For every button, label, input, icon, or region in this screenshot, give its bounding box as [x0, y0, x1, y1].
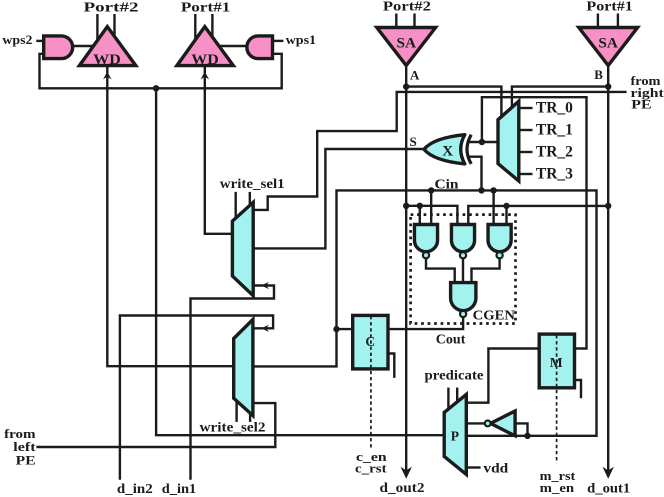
wire TR_1 stub [519, 129, 533, 131]
wire SA1 bitline left [597, 14, 599, 30]
junction Cin gate3 [490, 187, 496, 193]
svg-text:A: A [410, 67, 420, 82]
junction A-net gate1 [417, 203, 423, 209]
wire S from XOR to write_sel1 input [253, 149, 424, 248]
svg-text:CGEN: CGEN [473, 308, 515, 323]
register C [353, 315, 388, 369]
junction Cin XOR [478, 187, 484, 193]
wire vdd stub to P [466, 466, 480, 468]
arrow into WD2 [103, 72, 112, 80]
wire Cin stub to gate3 [492, 190, 494, 224]
wire TR_3 stub [519, 173, 533, 175]
junction Cin gate1 [428, 187, 434, 193]
wire from left PE to write_sel2 input [36, 403, 275, 447]
wire TR_2 stub [519, 151, 533, 153]
sense amp SA2 (Port#2) [377, 28, 436, 66]
svg-text:Port#1: Port#1 [181, 0, 231, 15]
wire from right PE to write_sel1 input [253, 92, 626, 210]
svg-text:PE: PE [631, 98, 651, 112]
wire node A vertical to d_out2 [405, 66, 407, 477]
junction node A [403, 83, 409, 89]
XOR gate X input arc [467, 135, 471, 164]
NAND gate CGEN-2 [451, 225, 474, 252]
write driver WD1 (Port#1) [177, 27, 233, 66]
arrow into WD1 [201, 72, 210, 80]
bubble CGEN-3 output [497, 252, 503, 258]
wire write_sel1 select stubs [234, 192, 236, 219]
svg-text:c_rst: c_rst [355, 462, 387, 476]
arrow into write_sel1 feedback [261, 282, 269, 289]
svg-text:TR_3: TR_3 [536, 165, 573, 182]
wire WD1 bitline right [211, 14, 213, 42]
wire TR mux output branch to M register [482, 97, 587, 348]
write driver WD2 (Port#2) [79, 27, 135, 66]
arrow d_out2 [401, 467, 412, 479]
arrow d_out1 [603, 467, 614, 479]
svg-text:write_sel2: write_sel2 [200, 420, 266, 435]
svg-text:S: S [410, 134, 417, 149]
mux write_sel1 [232, 202, 253, 295]
wire d_in2 to write_sel2 feedback input [120, 316, 273, 480]
svg-text:P: P [451, 429, 459, 444]
wire AND wps1 output to WD1 [218, 45, 248, 47]
wire A-net stub to gate1 [419, 206, 421, 225]
junction node loop/P [153, 85, 159, 91]
inverter [491, 411, 516, 436]
wire wps1 input stub [273, 40, 284, 42]
svg-text:M: M [550, 355, 563, 370]
svg-text:vdd: vdd [483, 461, 508, 476]
svg-text:WD: WD [93, 52, 121, 68]
wire P select stubs (predicate) [447, 388, 449, 411]
svg-text:SA: SA [598, 36, 618, 52]
svg-text:m_en: m_en [540, 481, 575, 495]
wire inverter input hook [515, 423, 527, 435]
CGEN dotted box [411, 215, 516, 324]
svg-text:X: X [442, 143, 453, 159]
svg-text:Port#2: Port#2 [84, 0, 139, 15]
wire WD2 bitline right [113, 14, 115, 42]
wire SA2 bitline left [395, 14, 397, 30]
wire gate2 output to NAND [462, 258, 464, 284]
wire B-net stub to gate3 [505, 206, 507, 225]
wire write_sel2 output to WD2 input [107, 66, 233, 366]
svg-text:Cin: Cin [435, 177, 460, 192]
mux write_sel2 [234, 320, 253, 416]
junction C input [333, 326, 339, 332]
wire C register clock hook [388, 354, 394, 378]
C register dashed control line [370, 316, 372, 448]
wire write_sel1 output to WD1 input [205, 66, 233, 234]
wire write_sel2 select stubs [235, 400, 237, 422]
wire P output riser to wps gates [156, 88, 444, 435]
svg-text:PE: PE [16, 453, 36, 467]
svg-text:Port#2: Port#2 [383, 0, 431, 15]
XOR gate X body [424, 135, 465, 164]
wire Cin branch to C register input [337, 328, 353, 330]
wire M output to P input [466, 349, 539, 403]
wire A to TR mux select [406, 87, 501, 117]
wire XOR lower input from Cin [469, 157, 482, 191]
svg-text:C: C [365, 334, 375, 349]
wire CGEN output Cout to C register [388, 317, 463, 329]
wire node B vertical to d_out1 [607, 66, 609, 477]
register M [539, 334, 574, 388]
junction TR mux output [479, 139, 485, 145]
wire gate1 output to NAND [426, 258, 455, 284]
svg-text:d_in1: d_in1 [162, 481, 197, 496]
wire wps loop (P output to AND gates) [40, 54, 282, 89]
wire AND wps2 output to WD2 [73, 45, 95, 47]
arrow into write_sel2 feedback [261, 325, 269, 332]
wire Cin net [253, 190, 597, 435]
bubble CGEN output stage [460, 311, 466, 317]
svg-text:wps2: wps2 [2, 32, 32, 47]
svg-text:WD: WD [191, 52, 219, 68]
wire inverter output to P [466, 422, 485, 424]
wire TR mux output to XOR input [469, 141, 499, 143]
wire SA2 bitline right [413, 14, 415, 30]
wire SA1 bitline right [617, 14, 619, 30]
junction node B [605, 83, 611, 89]
wire TR_0 stub [519, 107, 533, 109]
bubble CGEN-1 output [423, 252, 429, 258]
NAND gate CGEN output stage [451, 283, 476, 311]
AND gate wps2 [44, 36, 73, 59]
sense amp SA1 (Port#1) [579, 28, 638, 66]
svg-text:TR_0: TR_0 [536, 99, 573, 116]
svg-text:B: B [594, 67, 603, 82]
wire B to TR mux select [512, 87, 608, 108]
svg-text:Cout: Cout [436, 331, 466, 346]
svg-text:SA: SA [397, 36, 417, 52]
mux P (predicate) [444, 394, 466, 474]
junction B-net gate3 [503, 203, 509, 209]
svg-text:d_out2: d_out2 [380, 480, 425, 495]
svg-text:left: left [13, 440, 36, 454]
bubble inverter output [485, 421, 491, 427]
M register dashed control line [556, 335, 558, 463]
mux TR (4:1) [498, 101, 519, 181]
svg-text:TR_2: TR_2 [536, 143, 573, 160]
wire gate3 output to NAND [472, 258, 500, 284]
AND gate wps1 [247, 36, 273, 59]
NAND gate CGEN-1 [414, 225, 437, 252]
bubble CGEN-2 output [460, 252, 466, 258]
svg-text:d_in2: d_in2 [117, 481, 153, 496]
wire B-net to CGEN gates [468, 206, 608, 225]
junction B-net B [605, 203, 611, 209]
wire d_in1 to write_sel1 feedback input [191, 286, 275, 480]
svg-text:from: from [4, 427, 36, 441]
svg-text:d_out1: d_out1 [587, 481, 630, 496]
NAND gate CGEN-3 [488, 225, 511, 252]
svg-text:predicate: predicate [425, 368, 484, 383]
junction A-net [403, 203, 409, 209]
wire M register clock hook [575, 380, 582, 398]
svg-text:write_sel1: write_sel1 [220, 176, 285, 191]
wire WD1 bitline left [194, 14, 196, 44]
svg-text:wps1: wps1 [286, 32, 317, 47]
wire wps2 input stub [36, 40, 44, 42]
wire Cin stub to gate1 [430, 190, 432, 224]
svg-text:Port#1: Port#1 [586, 0, 632, 15]
wire A-net to CGEN gates [406, 206, 457, 225]
svg-text:TR_1: TR_1 [536, 121, 573, 138]
junction inverter tap [524, 433, 530, 439]
wire WD2 bitline left [96, 14, 98, 44]
